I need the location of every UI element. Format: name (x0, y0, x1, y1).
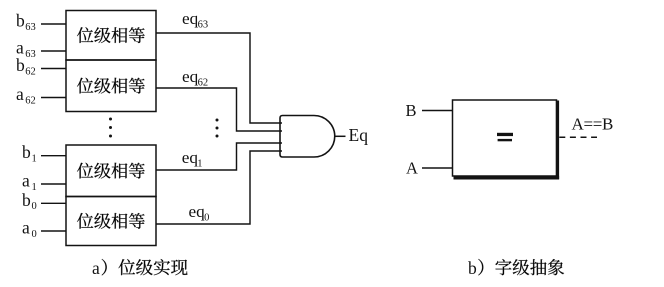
caption b) 字级抽象 (word-level abstraction) (468, 258, 564, 278)
input label a63 (16, 38, 36, 60)
svg-text:a: a (22, 171, 30, 191)
dashed output wire A==B (559, 136, 597, 138)
wire a62 to box (41, 97, 66, 99)
comparator box U3 位级相等 (bit-level equal) (66, 145, 156, 197)
ellipsis dots (left, between U2 and U3) (109, 118, 112, 138)
svg-text:63: 63 (198, 20, 209, 31)
label 位级相等 in U4 (77, 213, 145, 229)
svg-text:eq: eq (182, 148, 199, 167)
svg-text:b: b (22, 142, 31, 162)
input label a1 (22, 171, 37, 193)
AND gate U5 (280, 116, 335, 158)
label eq62 (182, 67, 208, 89)
svg-text:1: 1 (197, 159, 202, 170)
svg-text:0: 0 (204, 213, 209, 224)
svg-text:Eq: Eq (349, 125, 369, 145)
box U6 bottom shadow edge (454, 176, 560, 180)
label 位级相等 in U2 (77, 78, 145, 94)
label eq1 (182, 148, 203, 170)
svg-text:63: 63 (25, 49, 36, 60)
wire a0 to box (41, 230, 66, 232)
svg-text:eq: eq (189, 202, 206, 221)
svg-text:a: a (22, 218, 30, 238)
svg-text:62: 62 (25, 66, 36, 77)
box U6 right shadow edge (556, 101, 559, 180)
word-level equality box U6 (453, 100, 557, 176)
svg-text:0: 0 (32, 201, 37, 212)
wire eq63: box to AND gate (156, 33, 282, 123)
comparator box U4 位级相等 (bit-level equal) (66, 197, 156, 246)
svg-text:A: A (406, 159, 418, 178)
svg-text:1: 1 (32, 154, 37, 165)
svg-text:B: B (406, 101, 417, 120)
svg-text:b: b (16, 11, 25, 31)
label eq63 (182, 9, 208, 31)
wire a1 to box (41, 183, 66, 185)
svg-text:0: 0 (32, 229, 37, 240)
wire b0 to box (41, 202, 66, 204)
wire b63 to box (41, 23, 66, 25)
svg-text:63: 63 (25, 22, 36, 33)
wire A to U6 (422, 167, 453, 169)
label 位级相等 in U1 (77, 27, 145, 43)
wire eq0: box to AND gate (156, 151, 282, 224)
comparator box U1 位级相等 (bit-level equal) (66, 11, 156, 61)
svg-text:b: b (468, 258, 477, 278)
svg-text:a: a (16, 84, 24, 104)
input label b63 (16, 11, 36, 33)
svg-text:62: 62 (198, 78, 209, 89)
svg-text:1: 1 (32, 182, 37, 193)
label eq0 (189, 202, 210, 224)
input label a0 (22, 218, 37, 240)
wire eq62: box to AND gate (156, 88, 282, 131)
input label a62 (16, 84, 36, 106)
wire b62 to box (41, 68, 66, 70)
caption a) 位级实现 (bit-level implementation) (92, 258, 187, 278)
wire b1 to box (41, 155, 66, 157)
svg-text:62: 62 (25, 95, 36, 106)
wire AND gate output Eq (335, 135, 346, 137)
svg-text:A==B: A==B (572, 115, 614, 134)
svg-text:b: b (16, 55, 25, 75)
equals symbol inside U6 (497, 133, 513, 141)
ellipsis dots (middle, between eq62 and eq1 wires) (216, 119, 219, 138)
svg-text:eq: eq (182, 67, 199, 86)
input label b62 (16, 55, 36, 77)
svg-text:a: a (92, 258, 100, 278)
input label b1 (22, 142, 37, 164)
wire B to U6 (422, 110, 453, 112)
svg-text:b: b (22, 190, 31, 210)
label 位级相等 in U3 (77, 163, 145, 179)
svg-text:eq: eq (182, 9, 199, 28)
wire eq1: box to AND gate (156, 143, 282, 170)
input label b0 (22, 190, 37, 212)
wire a63 to box (41, 50, 66, 52)
comparator box U2 位级相等 (bit-level equal) (66, 60, 156, 112)
